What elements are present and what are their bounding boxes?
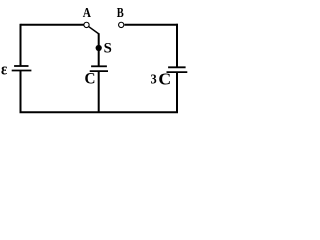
capacitor 3C plates: [167, 67, 188, 72]
switch contact B (open circle): [119, 22, 124, 27]
wire left vertical upper: [20, 24, 22, 66]
switch contact A (open circle): [84, 22, 89, 27]
capacitor C plates: [90, 66, 108, 71]
wire right vertical lower: [176, 72, 178, 112]
switch S blade: [89, 27, 99, 34]
svg-text:S: S: [104, 40, 112, 56]
wire top-left horizontal: [21, 24, 84, 26]
svg-text:C: C: [158, 69, 171, 88]
wire bottom horizontal: [20, 111, 179, 113]
svg-text:A: A: [83, 5, 92, 20]
wire top-right horizontal (B to corner): [125, 24, 179, 26]
svg-text:3: 3: [151, 72, 157, 87]
switch junction dot S: [96, 45, 102, 51]
wire left vertical lower: [20, 71, 22, 113]
wire middle vertical lower (C to bottom): [98, 71, 100, 112]
battery EMF source plates: [12, 66, 32, 71]
svg-text:B: B: [117, 6, 124, 21]
wire right vertical upper: [176, 24, 178, 68]
svg-text:ε: ε: [1, 60, 7, 79]
wire switch pole vertical (S branch upper): [98, 33, 100, 66]
svg-text:C: C: [85, 71, 96, 88]
